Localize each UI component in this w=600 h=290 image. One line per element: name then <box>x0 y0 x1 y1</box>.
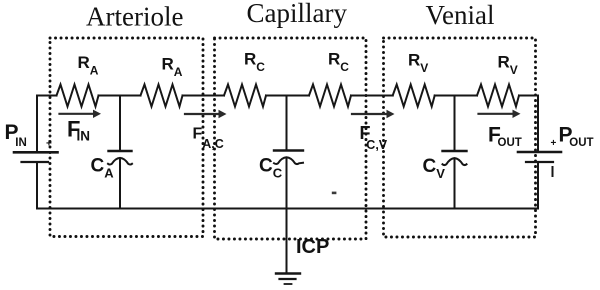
svg-text:Arteriole: Arteriole <box>86 2 183 32</box>
wire node B down to CC <box>286 96 288 151</box>
capacitor CC curved plate <box>274 157 303 164</box>
wire between R2 and R3 <box>183 95 225 97</box>
capacitor CV top plate <box>443 150 467 152</box>
battery POUT top plate <box>518 151 561 154</box>
ground bar 2 <box>280 278 296 280</box>
wire CV to bottom rail <box>454 158 456 208</box>
wire CC to bottom rail <box>286 158 288 209</box>
wire bottom rail <box>37 208 538 210</box>
resistor R3 zigzag (RC first) <box>224 85 266 107</box>
battery POUT bottom plate <box>526 161 553 163</box>
resistor R1 zigzag (RA first) <box>57 85 99 107</box>
wire between R4 and R5 <box>351 95 393 97</box>
capillary section dotted box <box>215 38 367 239</box>
capacitor CA top plate <box>109 150 132 152</box>
battery PIN bottom plate <box>22 161 49 163</box>
wire node C down to CV <box>454 96 456 152</box>
battery PIN top plate <box>14 151 58 154</box>
wire right rail below battery <box>537 162 539 209</box>
arrow FCV <box>352 110 395 118</box>
wire right rail above battery <box>537 96 539 153</box>
wire between R3 and R4 <box>266 95 309 97</box>
battery POUT minus tick <box>552 167 554 176</box>
arrow FAC <box>185 110 227 118</box>
resistor R2 zigzag (RA second) <box>141 85 183 107</box>
ground bar 3 <box>285 283 292 285</box>
arrow FIN <box>60 110 102 118</box>
arrow FOUT <box>479 110 521 118</box>
wire top left corner segment <box>37 96 57 153</box>
svg-text:ICP: ICP <box>296 236 329 258</box>
arteriole section dotted box <box>50 38 203 237</box>
svg-text:Venial: Venial <box>426 0 495 30</box>
resistor R6 zigzag (RV second) <box>477 85 519 107</box>
capacitor CA curved plate <box>108 158 132 165</box>
svg-text:Capillary: Capillary <box>247 0 348 28</box>
wire left rail below battery <box>36 162 38 209</box>
capacitor CV curved plate <box>443 158 467 165</box>
stray dash mark <box>332 192 337 195</box>
resistor R4 zigzag (RC second) <box>309 85 351 107</box>
wire R6 to right rail <box>519 95 538 97</box>
venial section dotted box <box>384 38 536 237</box>
wire CA to bottom rail <box>119 158 121 209</box>
wire between R5 and R6 <box>435 95 477 97</box>
svg-text:+: + <box>551 138 557 149</box>
svg-text:+: + <box>46 139 52 150</box>
wire between R1 and R2 <box>99 95 141 97</box>
capacitor CC top plate <box>274 149 303 151</box>
wire ICP ground stem <box>286 209 288 274</box>
wire node A down to CA <box>119 96 121 152</box>
ground bar 1 <box>276 272 300 274</box>
resistor R5 zigzag (RV first) <box>393 85 435 107</box>
